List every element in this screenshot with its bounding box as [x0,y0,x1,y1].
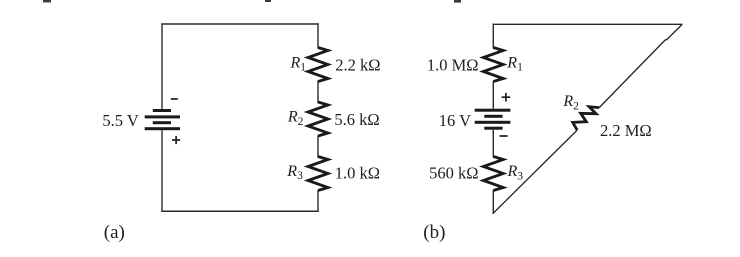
battery BT1: short bar [153,121,171,124]
svg-text:R1: R1 [290,54,307,73]
cropped text remnant top-middle [265,0,271,2]
wire: battery-R3 (b) [492,130,494,158]
wire: left side top lead (b) [492,24,494,49]
svg-text:5.6 kΩ: 5.6 kΩ [334,110,379,129]
svg-text:2.2 kΩ: 2.2 kΩ [335,55,380,74]
svg-text:16 V: 16 V [439,111,471,130]
resistor R3 (b) zigzag [483,157,503,191]
resistor R1 (b) zigzag [483,48,503,82]
svg-text:R3: R3 [507,163,524,182]
battery BT2: short bar [484,115,502,118]
cropped text remnant top-left [43,0,51,2]
wire: right side top lead (a) [317,23,319,48]
svg-text:(b): (b) [423,222,445,243]
svg-text:R2: R2 [562,93,579,112]
battery BT1 5.5 V : short bar (neg inner top) [153,109,171,112]
battery BT2: long bar [475,121,511,124]
svg-text:R3: R3 [286,163,303,182]
wire: left side upper (a) [161,23,163,109]
wire: top rail (b) [493,23,683,25]
wire: R2-R3 (a) [317,136,319,158]
wire: left side lower (a) [161,130,163,212]
resistor R3 (a) zigzag [308,157,328,191]
svg-text:1.0 kΩ: 1.0 kΩ [335,164,380,183]
svg-text:R1: R1 [506,54,523,73]
svg-text:2.2 MΩ: 2.2 MΩ [600,121,652,140]
svg-text:560 kΩ: 560 kΩ [429,164,478,183]
svg-text:R2: R2 [287,109,304,128]
resistor R1 (a) zigzag [308,48,328,82]
svg-text:1.0 MΩ: 1.0 MΩ [427,55,479,74]
wire: diagonal upper segment with slight jog [599,24,682,107]
battery BT2: short bar (neg bottom) [484,127,502,130]
battery BT1: long bar (pos bottom) [145,127,180,130]
cropped text remnant top-right [454,0,461,3]
svg-text:(a): (a) [104,222,125,243]
minus sign (b) [500,135,508,137]
wire: bottom rail (a) [161,210,318,212]
plus sign (a) [172,136,180,144]
resistor R2 (a) zigzag [308,102,328,136]
wire: R3-bottom vertex (b) [492,190,494,214]
wire: diagonal lower segment [493,130,578,214]
battery BT1: long bar [145,115,180,118]
battery BT2 16 V : long bar (pos top) [475,109,511,112]
resistor R2 (b) zigzag on diagonal [573,107,600,130]
wire: R1-battery (b) [492,81,494,109]
wire: R1-R2 (a) [317,81,319,103]
wire: R3-bottom rail (a) [317,190,319,212]
minus sign (a) [171,98,178,100]
wire: top rail (a) [162,23,319,25]
plus sign (b) [502,93,511,102]
svg-text:5.5 V: 5.5 V [102,111,138,130]
